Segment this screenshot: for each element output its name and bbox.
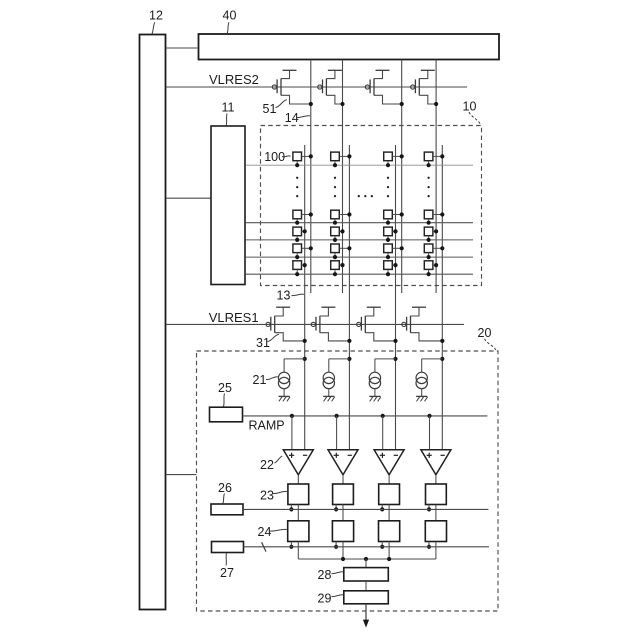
transistor 51 clip pmos col4 [411, 70, 437, 104]
wire column 4 signal line to readout [441, 145, 443, 450]
transistor 51 clip pmos col3 [365, 70, 401, 104]
junction pixel row5 col3 to row line [386, 272, 390, 276]
junction pixel row5 col3 to column line [393, 263, 397, 267]
junction pixel row3 col2 to column line [340, 229, 344, 233]
counter block 23 col3 [379, 484, 400, 505]
label 29 [318, 592, 332, 606]
svg-text:28: 28 [318, 568, 332, 582]
current source 21 col3 [369, 357, 397, 396]
transistor 51 clip pmos col2 supply rail symbol [328, 69, 342, 71]
leader for label 10 [469, 112, 481, 125]
transistor 31 reset pmos col3 drain junction [393, 339, 397, 343]
svg-text:11: 11 [222, 101, 235, 115]
label 13 [277, 289, 291, 303]
label 26 [218, 481, 232, 495]
leader for label 26 [223, 494, 225, 504]
ground symbol col3 [369, 396, 381, 401]
junction pixel row2 col1 to column line [309, 212, 313, 216]
junction 24 bus col3 [380, 545, 384, 549]
block 12 vertical scanning circuit [140, 35, 166, 610]
junction pixel row1 col2 to column line [347, 154, 351, 158]
transistor 51 clip pmos col2 [318, 70, 343, 104]
junction pixel row2 col4 to row line [427, 221, 431, 225]
transistor 31 reset pmos col3 supply rail symbol [367, 306, 381, 308]
array continuation dots col4 [427, 177, 429, 198]
leader for label 20 [485, 339, 497, 351]
leader for label 31 [268, 334, 280, 341]
svg-text:13: 13 [277, 289, 291, 303]
svg-text:21: 21 [253, 373, 267, 387]
junction pixel row1 col2 to row line [333, 163, 337, 167]
leader for label 29 [332, 595, 344, 597]
junction RAMP to comparator col2 [335, 414, 339, 418]
junction pixel row1 col1 to column line [309, 154, 313, 158]
pixel 100 row3 col4 [424, 227, 436, 240]
bus width slash on memory control bus [262, 542, 266, 551]
junction pixel row5 col1 to row line [295, 272, 299, 276]
junction pixel row4 col3 to column line [400, 246, 404, 250]
junction 24 bus col2 [334, 545, 338, 549]
junction RAMP to comparator col3 [381, 414, 385, 418]
transistor 31 reset pmos col2 supply rail symbol [321, 306, 335, 308]
wire 28 to 29 [365, 581, 367, 591]
label 11 [222, 101, 235, 115]
junction pixel row2 col2 to column line [347, 212, 351, 216]
junction pixel row2 col2 to row line [333, 221, 337, 225]
junction pixel row2 col3 to column line [400, 212, 404, 216]
junction pixel row2 col3 to row line [386, 221, 390, 225]
wire 24 col4 to output bus [435, 542, 437, 560]
wire RAMP stub col2 [336, 416, 338, 450]
comparator 22 col4 [421, 450, 451, 484]
memory block 24 col4 [425, 521, 446, 542]
array continuation dots col1 [296, 177, 298, 198]
junction pixel row5 col1 to column line [303, 263, 307, 267]
svg-text:25: 25 [218, 381, 232, 395]
wire 24 to control bus col2 [335, 542, 337, 547]
transistor 31 reset pmos col4 drain junction [440, 339, 444, 343]
junction 23 bus col4 [427, 507, 431, 511]
junction pixel row1 col4 to row line [427, 163, 431, 167]
wire column 3 supply line from block 40 [401, 60, 403, 294]
pixel 100 row3 col2 [331, 227, 343, 240]
pixel 100 row2 col1 [293, 210, 311, 223]
leader for label 27 [225, 553, 228, 565]
junction RAMP to comparator col4 [427, 414, 431, 418]
label 25 [218, 381, 232, 395]
pixel 100 row2 col3 [384, 210, 402, 223]
label 27 [220, 566, 234, 580]
wire output [365, 604, 367, 621]
svg-text:24: 24 [258, 525, 272, 539]
wire 24 col3 to output bus [388, 542, 390, 560]
pixel 100 row1 col4 [424, 152, 442, 165]
junction pixel row1 col1 to row line [295, 163, 299, 167]
leader for label 100 [282, 155, 291, 158]
comparator 22 col2 [328, 450, 358, 484]
junction pixel row4 col4 to row line [427, 255, 431, 259]
junction pixel row1 col3 to column line [400, 154, 404, 158]
dashed box 20 column readout region [197, 351, 499, 611]
junction pixel row4 col3 to row line [386, 255, 390, 259]
junction pixel row3 col4 to column line [434, 229, 438, 233]
pixel 100 row4 col4 [424, 244, 442, 257]
leader for label 25 [224, 394, 225, 407]
net VLRES1 bus [167, 323, 465, 325]
pixel 100 row3 col1 [293, 227, 305, 240]
counter block 23 col4 [426, 484, 447, 505]
junction pixel row4 col1 to row line [295, 255, 299, 259]
junction output bus col2 [341, 557, 345, 561]
wire 24 to control bus col3 [381, 542, 383, 547]
label 40 [223, 9, 237, 23]
leader for label 14 [296, 116, 310, 118]
junction pixel row1 col3 to row line [386, 163, 390, 167]
junction pixel row5 col4 to column line [434, 263, 438, 267]
pixel 100 row4 col2 [331, 244, 350, 257]
transistor 51 clip pmos col4 drain junction [434, 102, 438, 106]
wire 23 to 24 col1 [297, 505, 299, 521]
transistor 51 clip pmos col1 drain junction [309, 102, 313, 106]
junction output bus centre [364, 557, 368, 561]
wire pixel row line 3 from block 11 [246, 239, 474, 241]
pixel 100 row1 col1 [293, 152, 311, 165]
block 28 horizontal transfer [344, 568, 389, 581]
label RAMP [249, 419, 285, 433]
svg-text:51: 51 [263, 102, 277, 116]
comparator 22 col3 [374, 450, 404, 484]
wire 24 col1 to output bus [297, 542, 299, 560]
wire column 4 supply line from block 40 [435, 60, 437, 294]
junction pixel row3 col4 to row line [427, 238, 431, 242]
svg-text:29: 29 [318, 592, 332, 606]
transistor 51 clip pmos col2 drain junction [340, 102, 344, 106]
net VLRES2 bus [167, 86, 468, 88]
transistor 51 clip pmos col3 drain junction [400, 102, 404, 106]
junction pixel row4 col2 to column line [347, 246, 351, 250]
label VLRES1 [209, 310, 259, 325]
wire pixel row line 2 from block 11 [246, 222, 474, 224]
wire pixel row line 1 from block 11 [246, 164, 474, 166]
counter block 23 col1 [288, 484, 309, 505]
junction output bus col3 [387, 557, 391, 561]
svg-text:VLRES2: VLRES2 [209, 72, 259, 87]
label 28 [318, 568, 332, 582]
net horizontal output bus [298, 558, 436, 560]
pixel 100 row1 col2 [331, 152, 350, 165]
svg-text:22: 22 [260, 458, 274, 472]
label 100 [264, 150, 285, 164]
leader for label 12 [152, 22, 155, 34]
svg-text:20: 20 [478, 326, 492, 340]
junction pixel row3 col3 to column line [393, 229, 397, 233]
net RAMP bus [243, 415, 488, 417]
net counter control bus [243, 508, 488, 510]
leader for label 11 [225, 114, 228, 126]
junction pixel row5 col4 to row line [427, 272, 431, 276]
wire 23 to control bus col2 [335, 505, 337, 510]
block 11 row driver [211, 126, 245, 285]
ground symbol col1 [279, 396, 291, 401]
wire column 1 signal line to readout [304, 145, 306, 450]
label 12 [149, 9, 163, 23]
leader for label 28 [332, 572, 344, 574]
leader for label 13 [292, 294, 305, 296]
junction pixel row5 col2 to row line [333, 272, 337, 276]
wire block12 to block40 [167, 47, 199, 49]
wire 23 to control bus col4 [428, 505, 430, 510]
label 21 [253, 373, 267, 387]
output arrowhead [363, 620, 369, 628]
junction pixel row3 col1 to row line [295, 238, 299, 242]
svg-text:27: 27 [220, 566, 234, 580]
junction 23 bus col1 [289, 507, 293, 511]
wire block12 to block20 [167, 474, 197, 476]
leader for label 22 [275, 456, 283, 463]
memory block 24 col2 [332, 521, 353, 542]
leader for label 40 [227, 22, 229, 34]
wire column 3 signal line to readout [395, 145, 397, 450]
label 31 [256, 336, 270, 350]
transistor 31 reset pmos col3 [357, 307, 396, 341]
label VLRES2 [209, 72, 259, 87]
block 29 output circuit [344, 591, 389, 604]
dashed box 10 pixel array region [261, 126, 482, 286]
array continuation dots horizontal [358, 195, 373, 197]
wire column 2 supply line from block 40 [342, 60, 344, 294]
junction pixel row4 col1 to column line [309, 246, 313, 250]
pixel 100 row3 col3 [384, 227, 396, 240]
transistor 51 clip pmos col3 supply rail symbol [376, 69, 390, 71]
label 10 [463, 100, 477, 114]
junction pixel row4 col2 to row line [333, 255, 337, 259]
block 26 counter control [211, 504, 243, 515]
junction 23 bus col2 [334, 507, 338, 511]
pixel 100 row5 col4 [424, 261, 436, 274]
wire block12 to block11 [167, 197, 212, 199]
wire 24 to control bus col1 [290, 542, 292, 547]
array continuation dots col3 [387, 177, 389, 198]
wire pixel row line 4 from block 11 [246, 256, 474, 258]
wire 23 to 24 col2 [342, 505, 344, 521]
wire 23 to 24 col3 [388, 505, 390, 521]
pixel 100 row4 col3 [384, 244, 402, 257]
ground symbol col2 [323, 396, 335, 401]
junction 24 bus col1 [289, 545, 293, 549]
wire RAMP stub col3 [382, 416, 384, 450]
transistor 51 clip pmos col1 [272, 70, 311, 104]
junction 24 bus col4 [427, 545, 431, 549]
transistor 31 reset pmos col2 drain junction [347, 339, 351, 343]
svg-text:12: 12 [149, 9, 163, 23]
pixel 100 row2 col4 [424, 210, 442, 223]
current source 21 col4 [416, 357, 444, 396]
memory block 24 col3 [379, 521, 400, 542]
junction pixel row3 col3 to row line [386, 238, 390, 242]
label 14 [285, 111, 299, 125]
leader for label 24 [270, 529, 287, 531]
junction 23 bus col3 [380, 507, 384, 511]
wire 24 col2 to output bus [342, 542, 344, 560]
pixel 100 row5 col2 [331, 261, 343, 274]
transistor 31 reset pmos col4 [402, 307, 443, 341]
transistor 51 clip pmos col1 supply rail symbol [283, 69, 297, 71]
comparator 22 col1 [283, 450, 313, 484]
memory block 24 col1 [288, 521, 309, 542]
svg-text:40: 40 [223, 9, 237, 23]
transistor 31 reset pmos col4 supply rail symbol [412, 306, 426, 308]
pixel 100 row2 col2 [331, 210, 350, 223]
wire 23 to control bus col3 [381, 505, 383, 510]
label 24 [258, 525, 272, 539]
wire output bus to block 28 [365, 559, 367, 568]
wire RAMP stub col1 [291, 416, 293, 450]
pixel 100 row5 col1 [293, 261, 305, 274]
svg-text:31: 31 [256, 336, 270, 350]
junction pixel row2 col1 to row line [295, 221, 299, 225]
label 23 [260, 489, 274, 503]
svg-text:VLRES1: VLRES1 [209, 310, 259, 325]
pixel 100 row4 col1 [293, 244, 311, 257]
junction pixel row4 col4 to column line [440, 246, 444, 250]
leader for label 51 [276, 100, 288, 108]
ground symbol col4 [416, 396, 428, 401]
transistor 31 reset pmos col1 supply rail symbol [276, 306, 290, 308]
pixel 100 row1 col3 [384, 152, 402, 165]
wire column 1 supply line from block 40 [310, 60, 312, 294]
svg-text:26: 26 [218, 481, 232, 495]
counter block 23 col2 [333, 484, 354, 505]
current source 21 col2 [323, 357, 351, 396]
current source 21 col1 [278, 357, 306, 396]
block 40 top circuit [199, 34, 500, 60]
svg-text:10: 10 [463, 100, 477, 114]
junction RAMP to comparator col1 [290, 414, 294, 418]
block 27 memory control [212, 542, 244, 553]
transistor 51 clip pmos col4 supply rail symbol [421, 69, 435, 71]
transistor 31 reset pmos col1 drain junction [303, 339, 307, 343]
wire pixel row line 5 from block 11 [246, 273, 474, 275]
junction pixel row3 col1 to column line [303, 229, 307, 233]
label 22 [260, 458, 274, 472]
junction pixel row5 col2 to column line [340, 263, 344, 267]
label 20 [478, 326, 492, 340]
leader for label 21 [266, 377, 278, 380]
svg-text:RAMP: RAMP [249, 419, 285, 433]
junction pixel row3 col2 to row line [333, 238, 337, 242]
transistor 31 reset pmos col1 [266, 307, 305, 341]
block 25 ramp generator [210, 407, 243, 422]
wire 23 to control bus col1 [290, 505, 292, 510]
junction pixel row2 col4 to column line [440, 212, 444, 216]
net memory control bus [244, 546, 490, 548]
label 51 [263, 102, 277, 116]
leader for label 23 [273, 491, 288, 493]
wire 23 to 24 col4 [435, 505, 437, 521]
wire RAMP stub col4 [429, 416, 431, 450]
transistor 31 reset pmos col2 [311, 307, 349, 341]
array continuation dots col2 [334, 177, 336, 198]
wire 24 to control bus col4 [428, 542, 430, 547]
pixel 100 row5 col3 [384, 261, 396, 274]
junction pixel row1 col4 to column line [440, 154, 444, 158]
wire column 2 signal line to readout [348, 145, 350, 450]
svg-text:23: 23 [260, 489, 274, 503]
